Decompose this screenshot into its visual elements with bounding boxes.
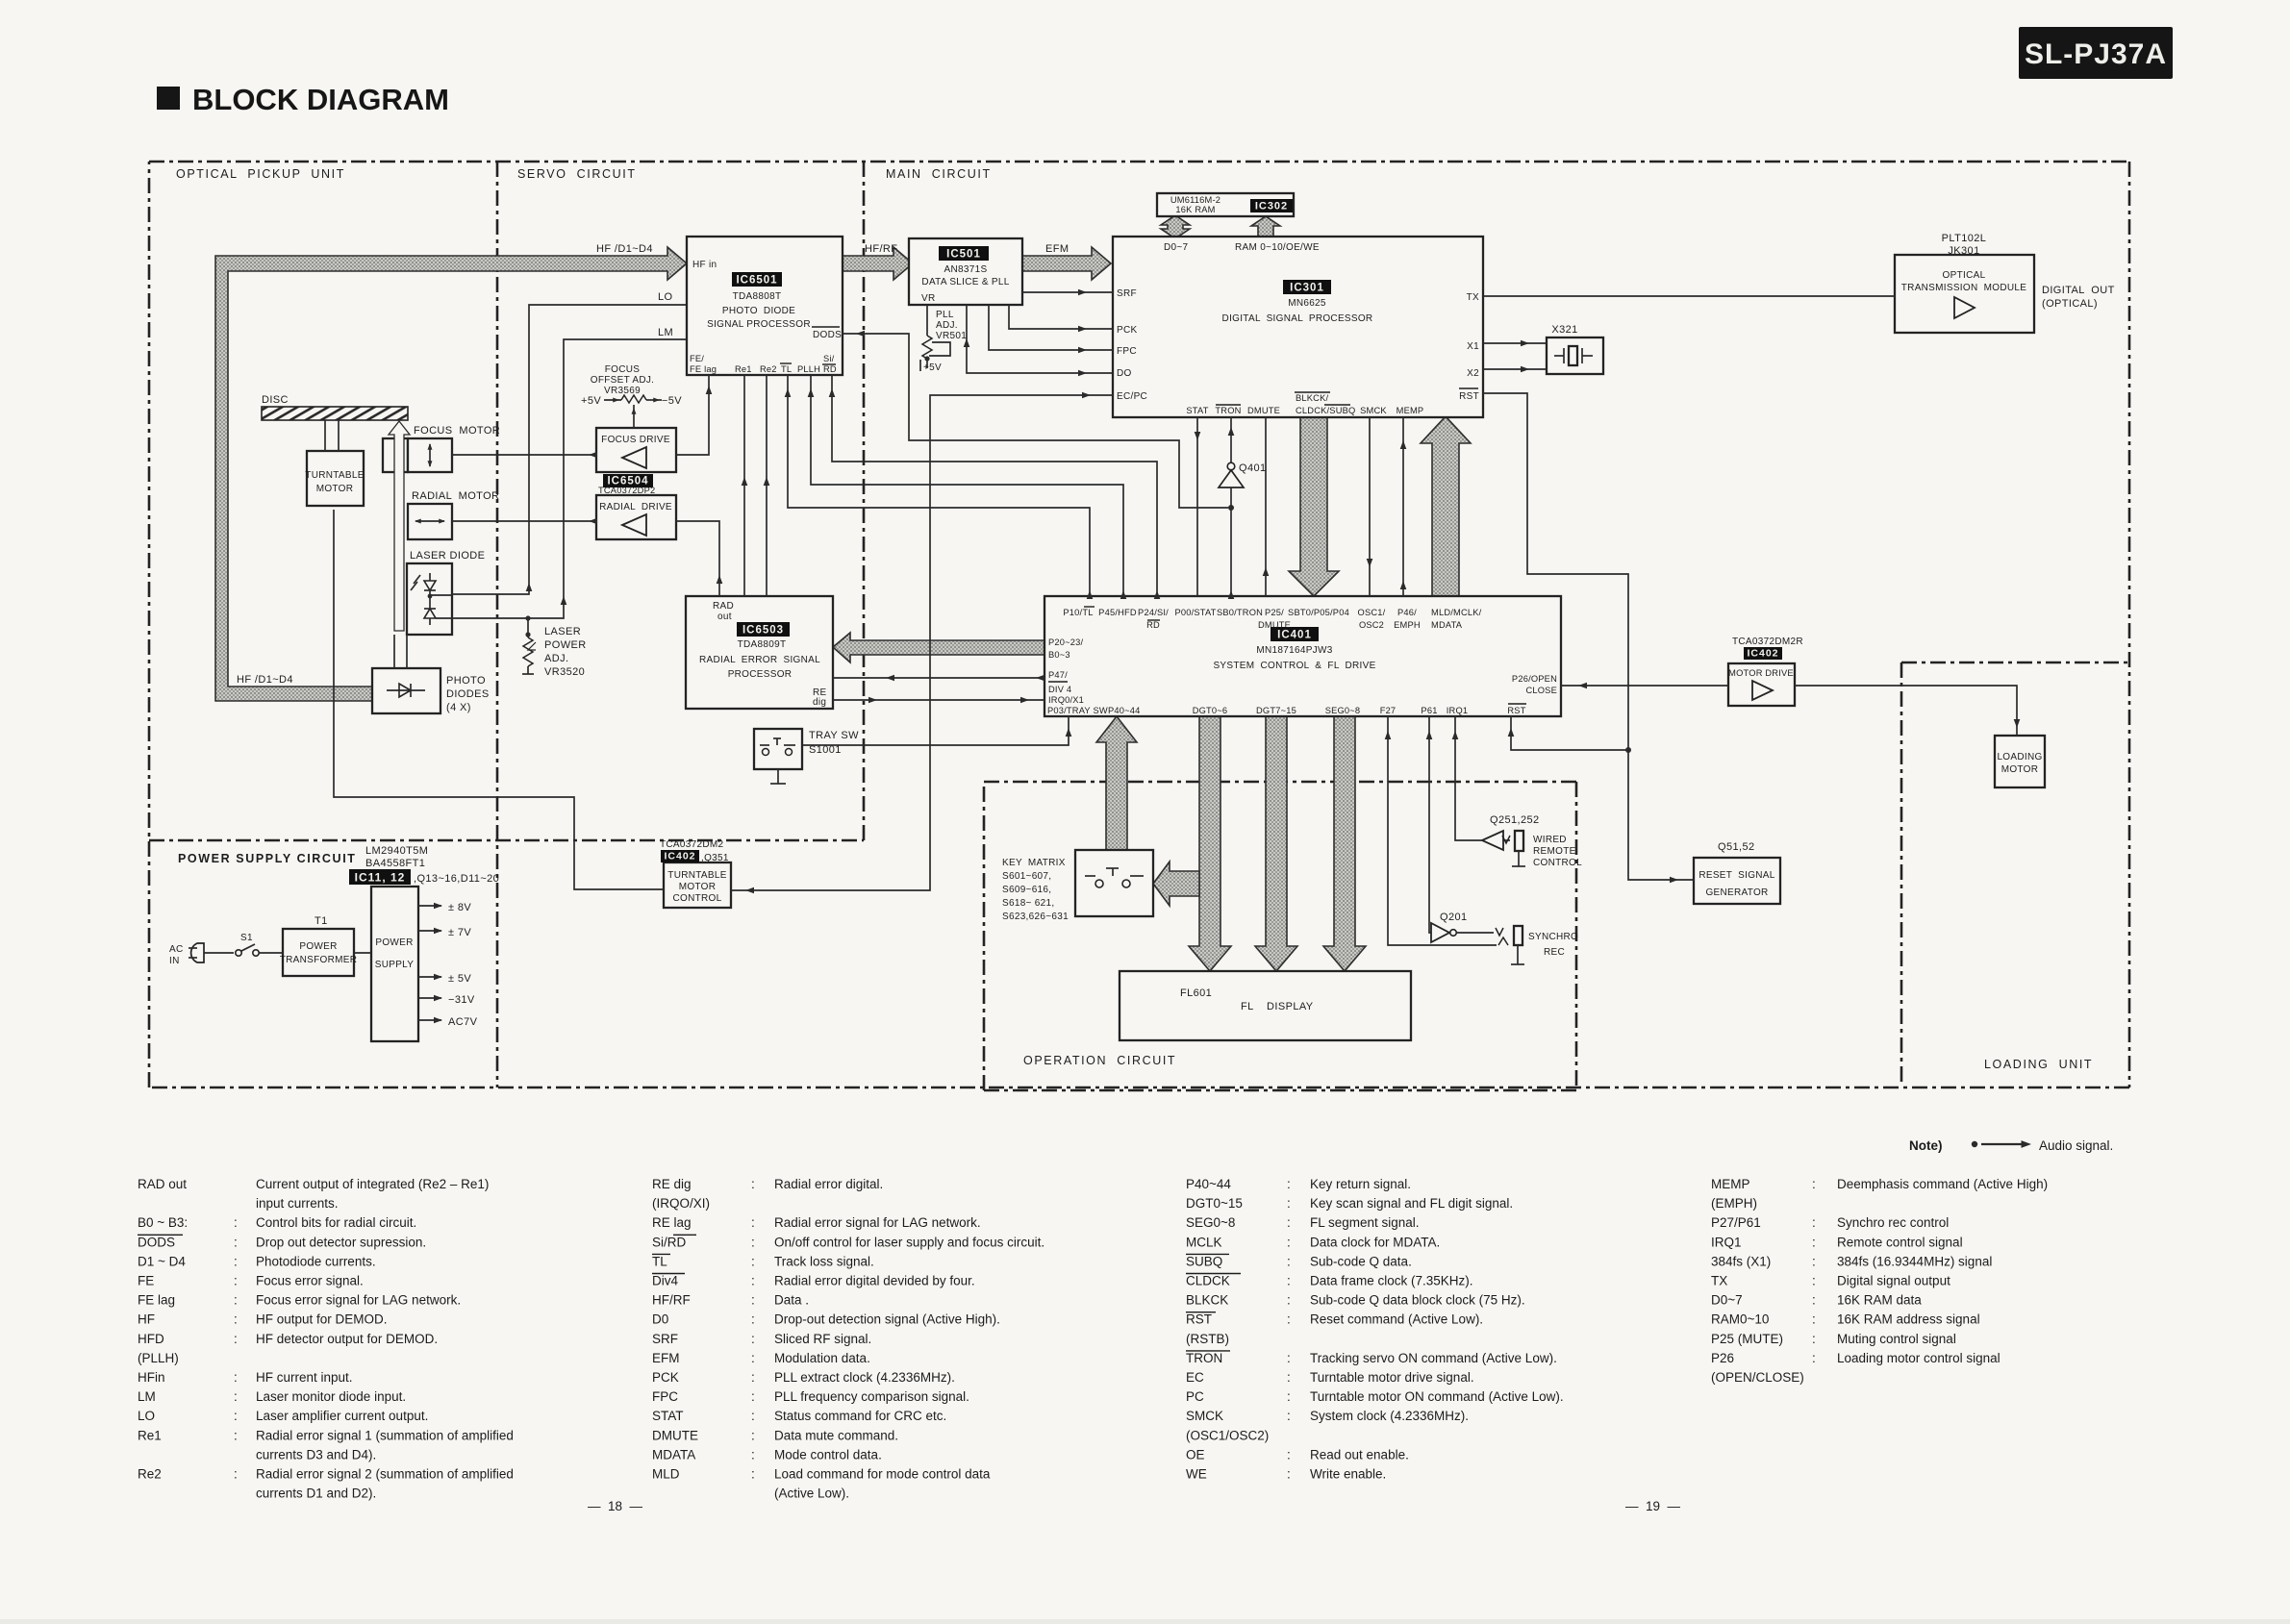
IC6501 photo diode signal processor box (687, 237, 843, 375)
svg-text:EMPH: EMPH (1394, 620, 1421, 630)
wire P61 IC401 to Q201 input (1426, 716, 1433, 933)
svg-text:FOCUS DRIVE: FOCUS DRIVE (601, 435, 670, 445)
wire LO IC6501 to laser diode (452, 291, 686, 594)
svg-text:Tracking servo ON command (Act: Tracking servo ON command (Active Low). (1310, 1351, 1557, 1365)
switch S1 (204, 933, 283, 956)
svg-text:(PLLH): (PLLH) (138, 1351, 179, 1365)
label PHOTO DIODES (4X) (446, 675, 490, 713)
inverter Q401 (1219, 417, 1267, 599)
svg-text:MCLK: MCLK (1186, 1235, 1222, 1249)
svg-text:(RSTB): (RSTB) (1186, 1332, 1229, 1346)
svg-text:VR: VR (921, 293, 936, 304)
svg-text:RD: RD (823, 364, 837, 374)
svg-text:TX: TX (1711, 1274, 1727, 1288)
svg-text:TRON: TRON (1215, 406, 1241, 415)
svg-text:,Q13~16,D11~20: ,Q13~16,D11~20 (414, 873, 499, 885)
svg-text:S609~616,: S609~616, (1002, 885, 1051, 895)
svg-text:IRQ0/X1: IRQ0/X1 (1048, 695, 1084, 705)
svg-text:LO: LO (658, 291, 673, 303)
svg-text:± 7V: ± 7V (448, 927, 471, 938)
svg-text::: : (751, 1177, 755, 1191)
svg-text:IC501: IC501 (946, 249, 981, 261)
svg-text:HF/RF: HF/RF (652, 1293, 691, 1308)
svg-text:MEMP: MEMP (1711, 1177, 1750, 1191)
bus DGT0~6 branch arrow to key matrix (1153, 862, 1199, 906)
svg-text::: : (234, 1235, 238, 1249)
wire Si/RD IC6501 to IC401 P24/SI/RD (829, 375, 1161, 599)
svg-text:RAM 0~10/OE/WE: RAM 0~10/OE/WE (1235, 242, 1320, 253)
svg-text:P10/TL: P10/TL (1063, 608, 1093, 617)
svg-text:HF /D1~D4: HF /D1~D4 (596, 243, 653, 255)
svg-text:Radial error signal for LAG ne: Radial error signal for LAG network. (774, 1215, 981, 1230)
svg-text:Key scan signal and FL digit s: Key scan signal and FL digit signal. (1310, 1196, 1513, 1211)
label FOCUS MOTOR (414, 425, 500, 437)
svg-text::: : (1812, 1351, 1816, 1365)
svg-text:TDA8808T: TDA8808T (733, 291, 782, 302)
svg-text:TRANSFORMER: TRANSFORMER (280, 955, 358, 965)
junction TRON node (1228, 505, 1234, 511)
section label LOADING UNIT (1984, 1058, 2093, 1071)
svg-text:Drop-out detection signal (Act: Drop-out detection signal (Active High). (774, 1312, 1000, 1327)
laser diode box with diodes (407, 563, 452, 635)
legend column 1 (138, 1177, 514, 1501)
svg-text:OE: OE (1186, 1447, 1205, 1462)
section label POWER SUPPLY CIRCUIT (178, 852, 357, 865)
key matrix box with switch (1075, 850, 1153, 916)
svg-text:ADJ.: ADJ. (936, 320, 958, 331)
svg-text:LASER DIODE: LASER DIODE (410, 550, 485, 562)
svg-text:TCA0372DP2: TCA0372DP2 (598, 486, 655, 495)
wire FPC IC501 to IC301 (989, 305, 1113, 353)
svg-text:Muting control signal: Muting control signal (1837, 1332, 1956, 1346)
svg-text:RADIAL DRIVE: RADIAL DRIVE (599, 502, 672, 512)
svg-text::: : (234, 1293, 238, 1308)
svg-text:Loading motor control signal: Loading motor control signal (1837, 1351, 2001, 1365)
IC401 system control and FL drive box (1044, 596, 1561, 716)
svg-text::: : (1812, 1215, 1816, 1230)
motor drive box IC402 right (1728, 663, 1795, 706)
operation circuit border (984, 782, 1576, 1090)
svg-text:P27/P61: P27/P61 (1711, 1215, 1761, 1230)
svg-text:FOCUS: FOCUS (605, 364, 641, 375)
svg-text:HF detector output for DEMOD.: HF detector output for DEMOD. (256, 1332, 438, 1346)
label DIGITAL OUT (OPTICAL) (2042, 285, 2115, 310)
svg-text:S1: S1 (240, 933, 253, 943)
svg-text:FE lag: FE lag (690, 364, 717, 374)
FL display box (1120, 971, 1411, 1040)
svg-text:(OPEN/CLOSE): (OPEN/CLOSE) (1711, 1370, 1804, 1385)
beam channel laser to photo diodes (394, 635, 407, 668)
svg-text:MDATA: MDATA (1431, 620, 1463, 630)
svg-text:Data clock for MDATA.: Data clock for MDATA. (1310, 1235, 1440, 1249)
svg-text:HF output for DEMOD.: HF output for DEMOD. (256, 1312, 388, 1327)
svg-text:RD: RD (1146, 620, 1160, 630)
bus HF/D1-D4 from photo diodes to IC6501 (gray pipe with arrow) (215, 247, 687, 701)
bus EFM arrow IC501 to IC301 (1022, 247, 1111, 280)
svg-text:System clock (4.2336MHz).: System clock (4.2336MHz). (1310, 1409, 1469, 1423)
svg-text:16K RAM: 16K RAM (1175, 205, 1215, 214)
svg-text:Focus error signal for LAG net: Focus error signal for LAG network. (256, 1293, 461, 1308)
svg-text:CONTROL: CONTROL (1533, 858, 1582, 868)
laser power adj VR3520 resistor (522, 615, 536, 674)
svg-text:384fs (16.9344MHz) signal: 384fs (16.9344MHz) signal (1837, 1254, 1992, 1268)
disc with hatch (262, 394, 408, 420)
svg-text:CLDCK: CLDCK (1186, 1274, 1230, 1288)
svg-text:Re2: Re2 (138, 1467, 162, 1482)
svg-text:X1: X1 (1467, 341, 1479, 352)
svg-text::: : (751, 1428, 755, 1442)
wire turntable motor control to turntable motor (334, 510, 664, 889)
svg-text::: : (1287, 1274, 1291, 1288)
svg-text:IC6501: IC6501 (736, 275, 777, 287)
svg-text::: : (234, 1215, 238, 1230)
labels PLT102L JK301 (1942, 233, 1987, 257)
svg-text::: : (1287, 1389, 1291, 1404)
svg-text:P61: P61 (1421, 706, 1437, 715)
svg-text:RESET SIGNAL: RESET SIGNAL (1699, 870, 1774, 881)
synchro rec inverter Q201 (1431, 923, 1524, 964)
label TRAY SW S1001 (809, 730, 859, 756)
wire transformer to power supply (354, 952, 371, 954)
svg-text:FL DISPLAY: FL DISPLAY (1241, 1001, 1314, 1012)
svg-text::: : (1287, 1409, 1291, 1423)
svg-text:POWER: POWER (544, 639, 587, 651)
svg-text:Status command for CRC etc.: Status command for CRC etc. (774, 1409, 946, 1423)
svg-text::: : (234, 1274, 238, 1288)
turntable motor box (305, 451, 364, 506)
svg-text:UM6116M-2: UM6116M-2 (1170, 195, 1220, 205)
svg-text:SBT0/P05/P04: SBT0/P05/P04 (1288, 608, 1349, 617)
bus SEG0~8 arrow IC401 down to FL display (1323, 716, 1366, 971)
svg-text:IN: IN (169, 956, 180, 966)
svg-text:JK301: JK301 (1948, 245, 1979, 257)
svg-text:DGT0~6: DGT0~6 (1193, 706, 1228, 715)
wire P47/DIV4 IC401 to IC6503 (833, 675, 1044, 682)
svg-text:LM: LM (658, 327, 673, 338)
svg-text:Data mute command.: Data mute command. (774, 1428, 898, 1442)
svg-text:P40~44: P40~44 (1186, 1177, 1231, 1191)
svg-text:SYSTEM CONTROL & FL DRIVE: SYSTEM CONTROL & FL DRIVE (1213, 661, 1375, 671)
svg-text:VR3569: VR3569 (604, 386, 641, 396)
label HF/D1~D4 bottom (237, 674, 293, 686)
svg-text:SL-PJ37A: SL-PJ37A (2025, 38, 2167, 70)
svg-text:Radial error signal 1 (summati: Radial error signal 1 (summation of ampl… (256, 1428, 514, 1442)
svg-text:P40~44: P40~44 (1108, 706, 1141, 715)
svg-text::: : (1812, 1293, 1816, 1308)
svg-text:SERVO CIRCUIT: SERVO CIRCUIT (517, 167, 637, 181)
svg-text:MOTOR: MOTOR (679, 882, 717, 892)
svg-text:Data frame clock (7.35KHz).: Data frame clock (7.35KHz). (1310, 1274, 1473, 1288)
svg-text:Mode control data.: Mode control data. (774, 1447, 882, 1462)
svg-text::: : (234, 1254, 238, 1268)
svg-text:REC: REC (1544, 947, 1565, 958)
svg-text::: : (751, 1409, 755, 1423)
svg-text:Deemphasis command (Active Hig: Deemphasis command (Active High) (1837, 1177, 2048, 1191)
power output +-7V (418, 927, 471, 938)
svg-text:MN187164PJW3: MN187164PJW3 (1256, 645, 1332, 656)
labels TCA0372DM2 IC402 Q351 (660, 839, 729, 863)
svg-text:P25/: P25/ (1265, 608, 1284, 617)
svg-text:GENERATOR: GENERATOR (1705, 887, 1768, 898)
tray switch S1001 box (754, 729, 802, 769)
svg-text:DO: DO (1117, 368, 1132, 379)
svg-text:IC301: IC301 (1290, 283, 1324, 294)
badge IC6504 and TCA0372DP2 label (598, 474, 655, 495)
svg-text:currents D1 and D2).: currents D1 and D2). (256, 1487, 376, 1501)
svg-text:Turntable motor drive signal.: Turntable motor drive signal. (1310, 1370, 1474, 1385)
power supply box (371, 887, 418, 1041)
svg-text:Focus error signal.: Focus error signal. (256, 1274, 364, 1288)
svg-text:BLOCK DIAGRAM: BLOCK DIAGRAM (192, 83, 449, 116)
svg-text::: : (751, 1312, 755, 1327)
svg-text:P26: P26 (1711, 1351, 1734, 1365)
svg-text:S623,626~631: S623,626~631 (1002, 912, 1069, 922)
label Q51,52 (1718, 841, 1754, 853)
svg-text:Q201: Q201 (1440, 912, 1468, 923)
focus offset adj VR3569 potentiometer (581, 364, 682, 428)
radial motor box (408, 504, 452, 539)
svg-text:IC401: IC401 (1277, 630, 1312, 641)
svg-text:Digital signal output: Digital signal output (1837, 1274, 1950, 1288)
svg-text:EC: EC (1186, 1370, 1204, 1385)
svg-text::: : (751, 1351, 755, 1365)
svg-text:DMUTE: DMUTE (1247, 406, 1280, 415)
svg-text:TURNTABLE: TURNTABLE (305, 470, 364, 481)
svg-text:DIGITAL SIGNAL PROCESSOR: DIGITAL SIGNAL PROCESSOR (1222, 313, 1373, 324)
label WIRED REMOTE CONTROL (1533, 835, 1582, 868)
svg-text:CLOSE: CLOSE (1525, 686, 1557, 695)
svg-text:P25 (MUTE): P25 (MUTE) (1711, 1332, 1783, 1346)
svg-text:AC7V: AC7V (448, 1016, 478, 1028)
svg-text:Div4: Div4 (652, 1274, 678, 1288)
svg-text:OPERATION CIRCUIT: OPERATION CIRCUIT (1023, 1054, 1176, 1067)
svg-text:± 8V: ± 8V (448, 902, 471, 913)
svg-text:Key return signal.: Key return signal. (1310, 1177, 1411, 1191)
wire F27 IC401 to synchro rec jack contact (1385, 716, 1497, 945)
wire tray switch to IC401 P03 (802, 716, 1071, 745)
section label OPTICAL PICKUP UNIT (176, 167, 345, 181)
label Q251,252 (1490, 814, 1540, 826)
svg-text:HF: HF (138, 1312, 155, 1327)
svg-text::: : (751, 1254, 755, 1268)
wire X1 IC301 to crystal (1483, 340, 1547, 347)
svg-text:SRF: SRF (652, 1332, 678, 1346)
wire motor drive to loading motor (1795, 686, 2020, 736)
svg-text::: : (1812, 1274, 1816, 1288)
PLL adj VR501 resistor (920, 305, 967, 373)
wire TX IC301 to optical transmission module (1483, 295, 1895, 297)
svg-text:FE lag: FE lag (138, 1293, 175, 1308)
section label SERVO CIRCUIT (517, 167, 637, 181)
svg-text:LOADING: LOADING (1997, 752, 2042, 762)
svg-text:DODS: DODS (138, 1235, 175, 1249)
svg-text::: : (234, 1370, 238, 1385)
model badge SL-PJ37A (2019, 27, 2173, 79)
svg-text::: : (1287, 1196, 1291, 1211)
svg-text:Reset command (Active Low).: Reset command (Active Low). (1310, 1312, 1483, 1327)
svg-text:FE/: FE/ (690, 354, 704, 363)
svg-text:PC: PC (1186, 1389, 1204, 1404)
reset signal generator box (1694, 858, 1780, 904)
svg-text:F27: F27 (1380, 706, 1397, 715)
turntable motor control box (664, 862, 731, 908)
svg-text:SUPPLY: SUPPLY (375, 960, 415, 970)
svg-text::: : (234, 1467, 238, 1482)
svg-text:16K RAM data: 16K RAM data (1837, 1293, 1922, 1308)
svg-text:FE: FE (138, 1274, 154, 1288)
badge IC11,12 and Q13~16,D11~20 (349, 869, 499, 885)
svg-text:RAM0~10: RAM0~10 (1711, 1312, 1769, 1327)
svg-text:DGT0~15: DGT0~15 (1186, 1196, 1243, 1211)
svg-text:Laser monitor diode input.: Laser monitor diode input. (256, 1389, 406, 1404)
svg-text:currents D3 and D4).: currents D3 and D4). (256, 1447, 376, 1462)
svg-text:OPTICAL: OPTICAL (1943, 270, 1986, 281)
svg-text:TCA0372DM2R: TCA0372DM2R (1732, 637, 1803, 647)
svg-text::: : (234, 1332, 238, 1346)
svg-text::: : (1812, 1312, 1816, 1327)
wire TL IC6501 to IC401 P10/TL (785, 375, 1094, 599)
wire Re1 IC6501 to IC6503 (742, 375, 748, 596)
svg-text:LASER: LASER (544, 626, 581, 637)
svg-text:HFin: HFin (138, 1370, 165, 1385)
bus RAM0~10 arrow to IC302 RAM (1251, 216, 1280, 237)
IC301 digital signal processor box (1113, 237, 1483, 417)
svg-text:Radial error signal 2 (summati: Radial error signal 2 (summation of ampl… (256, 1467, 514, 1482)
section label MAIN CIRCUIT (886, 167, 992, 181)
AC IN plug (169, 943, 204, 966)
svg-text:Sliced RF signal.: Sliced RF signal. (774, 1332, 871, 1346)
svg-text:Control bits for radial circui: Control bits for radial circuit. (256, 1215, 416, 1230)
wire RST net IC301 to IC401 and reset generator (1483, 393, 1694, 883)
svg-text:ADJ.: ADJ. (544, 653, 568, 664)
svg-text:BLKCK/: BLKCK/ (1296, 393, 1328, 403)
svg-text:SMCK: SMCK (1186, 1409, 1223, 1423)
svg-text:TRON: TRON (1186, 1351, 1222, 1365)
title block: BLOCK DIAGRAM (157, 83, 449, 116)
svg-text::: : (1287, 1370, 1291, 1385)
svg-text:P20~23/: P20~23/ (1048, 637, 1084, 647)
wire STAT IC301 to IC401 (1195, 417, 1201, 596)
svg-text::: : (1812, 1254, 1816, 1268)
svg-text:(IRQO/XI): (IRQO/XI) (652, 1196, 710, 1211)
svg-text:(OSC1/OSC2): (OSC1/OSC2) (1186, 1428, 1269, 1442)
svg-text:Radial error digital devided b: Radial error digital devided by four. (774, 1274, 975, 1288)
svg-text::: : (1812, 1177, 1816, 1191)
svg-text::: : (1287, 1293, 1291, 1308)
svg-text:IRQ1: IRQ1 (1447, 706, 1469, 715)
svg-text:Radial error digital.: Radial error digital. (774, 1177, 883, 1191)
svg-text:(EMPH): (EMPH) (1711, 1196, 1757, 1211)
svg-text:TX: TX (1467, 292, 1479, 303)
photo diodes box (372, 668, 440, 713)
svg-text:IC402: IC402 (664, 851, 695, 862)
power transformer box T1 (280, 929, 358, 976)
svg-text:CLDCK/SUBQ: CLDCK/SUBQ (1296, 406, 1355, 415)
label LASER POWER ADJ VR3520 (544, 626, 587, 678)
labels LM2940T5M BA4558FT1 (365, 845, 428, 869)
svg-text:P45/HFD: P45/HFD (1098, 608, 1137, 617)
wire DMUTE IC301 to IC401 (1263, 417, 1270, 596)
svg-text:FL segment signal.: FL segment signal. (1310, 1215, 1420, 1230)
svg-text:Modulation data.: Modulation data. (774, 1351, 870, 1365)
svg-text:AN8371S: AN8371S (944, 264, 988, 275)
svg-text:P24/SI/: P24/SI/ (1138, 608, 1169, 617)
svg-text:PHOTO: PHOTO (446, 675, 486, 687)
outer border main diagram (149, 162, 2129, 1087)
svg-text:STAT: STAT (652, 1409, 684, 1423)
power output AC7V (418, 1016, 478, 1028)
bus BLKCK/CLDCK/SUBQ arrow IC301 down to IC401 SBT0/P05/P04 (1289, 417, 1339, 596)
label X321 (1551, 324, 1577, 336)
svg-text:Note): Note) (1909, 1138, 1943, 1153)
svg-text:DIODES: DIODES (446, 688, 490, 700)
svg-text:Re1: Re1 (735, 364, 752, 374)
radial drive box (596, 495, 676, 539)
svg-text:MOTOR: MOTOR (316, 484, 354, 494)
svg-text:DODS: DODS (813, 330, 842, 340)
svg-text:FOCUS MOTOR: FOCUS MOTOR (414, 425, 500, 437)
svg-text:input currents.: input currents. (256, 1196, 339, 1211)
svg-text:Q401: Q401 (1239, 462, 1267, 474)
labels TCA0372DM2R IC402 (1732, 637, 1803, 660)
svg-text::: : (1287, 1235, 1291, 1249)
bus HF/RF arrow IC6501 to IC501 (843, 247, 913, 280)
svg-text:SUBQ: SUBQ (1186, 1254, 1222, 1268)
wire FE IC6501 to focus drive (676, 375, 712, 455)
svg-text:BA4558FT1: BA4558FT1 (365, 858, 425, 869)
svg-text:MOTOR: MOTOR (2001, 764, 2039, 775)
svg-text::: : (1812, 1332, 1816, 1346)
svg-text:CONTROL: CONTROL (673, 893, 722, 904)
legend column 4 (1711, 1177, 2048, 1385)
wire Re2 IC6501 to IC6503 (764, 375, 770, 596)
svg-text:MLD: MLD (652, 1467, 680, 1482)
svg-text:TL: TL (781, 364, 792, 374)
svg-text::: : (1287, 1447, 1291, 1462)
svg-text::: : (751, 1215, 755, 1230)
svg-text:X2: X2 (1467, 368, 1479, 379)
svg-text:IC302: IC302 (1255, 201, 1288, 212)
bus DGT0~6 arrow IC401 down to FL display (1189, 716, 1231, 971)
svg-text:Turntable motor ON command (Ac: Turntable motor ON command (Active Low). (1310, 1389, 1564, 1404)
svg-text:P03/TRAY SW: P03/TRAY SW (1047, 706, 1108, 715)
svg-text:IRQ1: IRQ1 (1711, 1235, 1742, 1249)
svg-text::: : (751, 1332, 755, 1346)
label HF/D1~D4 top (596, 243, 653, 255)
svg-text:,Q351: ,Q351 (701, 853, 729, 863)
wire radial drive to radial motor (452, 518, 597, 525)
label LASER DIODE (410, 550, 485, 562)
svg-text:SYNCHRO: SYNCHRO (1528, 932, 1578, 942)
svg-text:KEY MATRIX: KEY MATRIX (1002, 858, 1066, 868)
divider optical pickup / servo circuit (496, 162, 499, 1087)
svg-text:RE lag: RE lag (652, 1215, 692, 1230)
svg-text:TRANSMISSION MODULE: TRANSMISSION MODULE (1901, 283, 2026, 293)
svg-text:Q51,52: Q51,52 (1718, 841, 1754, 853)
svg-text:Write enable.: Write enable. (1310, 1467, 1386, 1482)
svg-text:Re1: Re1 (138, 1428, 162, 1442)
svg-text:384fs (X1): 384fs (X1) (1711, 1254, 1771, 1268)
svg-text:MDATA: MDATA (652, 1447, 695, 1462)
wire DO to IC301 (964, 305, 1113, 376)
svg-text::: : (234, 1409, 238, 1423)
svg-text:PROCESSOR: PROCESSOR (728, 669, 793, 680)
svg-text:−31V: −31V (448, 994, 475, 1006)
svg-text:PLT102L: PLT102L (1942, 233, 1987, 244)
power output +-8V (418, 902, 471, 913)
svg-text:MOTOR DRIVE: MOTOR DRIVE (1728, 668, 1794, 678)
svg-text:DATA SLICE & PLL: DATA SLICE & PLL (921, 277, 1009, 287)
